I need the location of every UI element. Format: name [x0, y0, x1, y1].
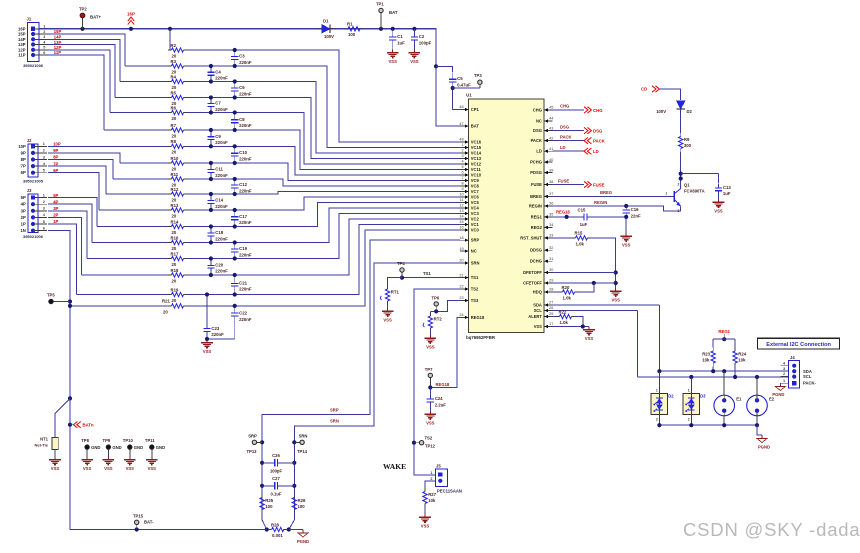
svg-text:1uF: 1uF: [397, 40, 405, 45]
svg-text:FUSE: FUSE: [558, 178, 569, 183]
svg-text:3: 3: [43, 35, 45, 39]
resistor R16: [168, 235, 187, 251]
svg-text:7P: 7P: [21, 164, 26, 169]
net flag FUSE: [584, 181, 605, 187]
svg-text:14P: 14P: [54, 35, 62, 40]
svg-text:J2: J2: [27, 138, 32, 143]
wire R9 to Q1 collector: [680, 152, 682, 189]
ground VSS pin 17: [583, 327, 595, 341]
wire D4 to bottom bus: [658, 414, 660, 425]
wire SCL to E2: [756, 377, 758, 395]
pin 8 VC8: [460, 182, 479, 189]
wire BAT to C5: [436, 66, 453, 72]
svg-text:C10: C10: [239, 150, 247, 155]
wire R11 row to IC pin: [187, 179, 460, 186]
svg-text:REG2: REG2: [531, 225, 543, 230]
svg-text:R10: R10: [171, 156, 179, 161]
svg-text:R4: R4: [171, 74, 177, 79]
test point TP5: [47, 293, 70, 304]
svg-text:15: 15: [459, 220, 463, 224]
pin 31 DCHG: [530, 257, 553, 264]
svg-text:20: 20: [172, 262, 177, 267]
pin 18 SRP: [459, 236, 479, 243]
test point TP15 BAT-: [133, 513, 154, 529]
svg-text:TP7: TP7: [425, 367, 433, 372]
wire J5 pin2 to R27: [425, 481, 436, 488]
net flag DSG: [584, 127, 603, 133]
svg-text:REG1: REG1: [718, 329, 730, 334]
svg-text:C1: C1: [397, 34, 403, 39]
svg-text:1: 1: [688, 389, 690, 393]
svg-text:47: 47: [459, 122, 463, 126]
svg-text:TP13: TP13: [247, 449, 258, 454]
wire ALERT to R22: [553, 316, 557, 318]
svg-text:PGND: PGND: [758, 445, 770, 450]
ground VSS C2: [409, 50, 421, 64]
svg-text:TS1: TS1: [423, 271, 431, 276]
svg-text:41: 41: [549, 147, 553, 151]
svg-text:TP8: TP8: [81, 438, 89, 443]
resistor R22: [556, 309, 575, 325]
junction: [581, 324, 585, 328]
svg-text:19: 19: [459, 247, 463, 251]
svg-text:GND: GND: [156, 445, 165, 450]
wire E2 to bottom bus: [756, 416, 758, 425]
svg-text:VC13: VC13: [471, 156, 482, 161]
svg-text:TP15: TP15: [133, 513, 144, 518]
pin 11 VC5: [460, 198, 480, 205]
svg-text:15P: 15P: [18, 32, 26, 37]
capacitor C9 220nF: [207, 130, 228, 146]
svg-text:220nF: 220nF: [215, 140, 228, 145]
svg-text:100pF: 100pF: [270, 468, 283, 473]
svg-text:24: 24: [459, 313, 463, 317]
svg-text:C8: C8: [239, 117, 245, 122]
svg-text:CD: CD: [641, 87, 647, 92]
svg-text:6P: 6P: [21, 170, 26, 175]
resistor R28: [268, 522, 287, 538]
svg-text:1.0k: 1.0k: [560, 320, 569, 325]
svg-text:TP12: TP12: [425, 444, 436, 449]
thermistor RT1: [380, 286, 399, 305]
svg-text:10k: 10k: [428, 498, 436, 503]
svg-text:NC: NC: [536, 119, 542, 124]
svg-text:12: 12: [459, 204, 463, 208]
junction: [689, 423, 693, 427]
wire CFETOFF: [553, 282, 616, 284]
wire R3 row to IC pin: [187, 66, 460, 148]
svg-text:R16: R16: [171, 235, 179, 240]
capacitor C16: [623, 206, 641, 218]
wire VSS pin to ground: [553, 326, 590, 328]
junction: [233, 128, 237, 132]
svg-text:R15: R15: [575, 231, 583, 236]
svg-text:220nF: 220nF: [239, 252, 252, 257]
wire C1 stem: [392, 29, 394, 32]
wire connector to row: [48, 173, 99, 210]
svg-text:0.1uF: 0.1uF: [271, 491, 282, 496]
resistor R25: [260, 494, 274, 513]
junction: [624, 204, 628, 208]
svg-text:PACK: PACK: [531, 138, 542, 143]
svg-text:6P: 6P: [53, 168, 58, 173]
svg-text:C15: C15: [578, 208, 586, 213]
svg-text:VSS: VSS: [104, 466, 113, 471]
junction: [265, 527, 269, 531]
wire C2 stem: [413, 29, 415, 32]
svg-text:PACK: PACK: [560, 134, 572, 139]
svg-text:R25: R25: [265, 498, 273, 503]
svg-text:R27: R27: [428, 492, 436, 497]
wire R22 down to VSS net: [575, 317, 583, 327]
svg-text:100: 100: [298, 504, 306, 509]
svg-text:220nF: 220nF: [215, 269, 228, 274]
svg-text:C26: C26: [272, 453, 280, 458]
svg-text:E1: E1: [736, 397, 742, 402]
svg-text:TS2: TS2: [425, 436, 433, 441]
capacitor C4 220nF: [207, 66, 228, 82]
junction: [233, 304, 237, 308]
svg-text:VC4: VC4: [471, 206, 480, 211]
svg-text:R26: R26: [298, 498, 306, 503]
svg-text:1.0k: 1.0k: [576, 241, 585, 246]
junction: [657, 369, 661, 373]
net flag CHG: [584, 107, 603, 113]
capacitor C27 0.1uF: [262, 476, 294, 496]
capacitor C20 220nF: [207, 259, 228, 276]
svg-text:J1: J1: [27, 17, 32, 22]
wire net row R2: [168, 49, 170, 51]
svg-text:1.0k: 1.0k: [563, 295, 572, 300]
svg-text:TP4: TP4: [397, 261, 405, 266]
svg-text:2: 2: [43, 30, 45, 34]
wire RT2 to ground: [429, 332, 431, 336]
junction: [391, 27, 395, 31]
wire R18 row to IC pin: [187, 219, 460, 275]
pin 34 REG2: [531, 223, 554, 230]
svg-text:CSDN @SKY -dada: CSDN @SKY -dada: [683, 519, 860, 540]
svg-text:14: 14: [459, 215, 463, 219]
net flag CD: [641, 86, 659, 92]
junction: [614, 281, 618, 285]
test point TP14 SRN: [294, 433, 307, 454]
svg-text:220nF: 220nF: [215, 204, 228, 209]
svg-text:U1: U1: [466, 93, 472, 98]
svg-text:External I2C Connection: External I2C Connection: [766, 342, 831, 348]
svg-text:C11: C11: [215, 167, 223, 172]
svg-text:16: 16: [459, 226, 463, 230]
wire NT1 to ground: [54, 450, 56, 457]
svg-text:PGND: PGND: [772, 392, 784, 397]
capacitor C3 220nF: [231, 50, 252, 66]
junction: [209, 256, 213, 260]
svg-text:2: 2: [43, 149, 45, 153]
pin 29 CFETOFF: [523, 279, 553, 286]
svg-text:36: 36: [549, 202, 553, 206]
svg-text:NT1: NT1: [40, 437, 49, 442]
capacitor C10 220nF: [231, 146, 252, 163]
svg-text:1uF: 1uF: [723, 191, 731, 196]
svg-text:R9: R9: [684, 137, 690, 142]
wire SDA bus: [659, 370, 788, 372]
wire net row R6: [110, 112, 168, 114]
pin 47 BAT: [459, 122, 479, 129]
svg-text:PCHG: PCHG: [530, 160, 542, 165]
capacitor C6 220nF: [231, 82, 252, 98]
svg-text:VSS: VSS: [426, 420, 435, 425]
svg-text:bq76952PFBR: bq76952PFBR: [466, 335, 496, 340]
wire CD to D2: [659, 89, 680, 100]
svg-text:PEC11SAAN: PEC11SAAN: [437, 489, 462, 494]
ground VSS RT1: [382, 308, 394, 322]
svg-text:220nF: 220nF: [239, 287, 252, 292]
svg-text:6: 6: [461, 171, 463, 175]
wire R13 row to IC pin: [187, 197, 460, 210]
junction: [68, 423, 72, 427]
svg-text:VSS: VSS: [83, 466, 92, 471]
capacitor C2: [411, 32, 432, 45]
pin 25 ALERT: [528, 312, 553, 319]
wire R6 row to IC pin: [187, 113, 460, 165]
svg-text:2P: 2P: [53, 213, 58, 218]
svg-text:SDA: SDA: [533, 303, 542, 308]
wire C13 to ground: [718, 196, 720, 200]
wire connector to row: [48, 224, 77, 295]
capacitor C17 220nF: [231, 210, 252, 227]
svg-text:VC11: VC11: [471, 167, 482, 172]
wire R10 row to IC pin: [187, 163, 460, 181]
svg-text:5P: 5P: [53, 193, 58, 198]
junction: [209, 128, 213, 132]
svg-text:2: 2: [783, 372, 785, 376]
svg-text:20: 20: [163, 309, 168, 314]
junction: [292, 461, 296, 465]
wire net row R19: [76, 294, 168, 296]
capacitor C24: [427, 395, 447, 407]
svg-text:TP5: TP5: [47, 293, 55, 298]
test point TP8 GND: [81, 438, 100, 456]
svg-text:BAT-: BAT-: [144, 520, 154, 525]
svg-text:VSS: VSS: [410, 59, 419, 64]
net-tie NT1: [35, 437, 59, 450]
wire R20 up to CFETOFF: [578, 283, 594, 292]
svg-text:REG1: REG1: [531, 214, 543, 219]
wire net row R5: [115, 97, 168, 99]
svg-text:LD: LD: [536, 149, 542, 154]
svg-text:REG18: REG18: [436, 382, 450, 387]
pin 38 FUSE: [531, 180, 553, 187]
junction: [689, 375, 693, 379]
svg-text:220nF: 220nF: [239, 60, 252, 65]
junction: [209, 95, 213, 99]
svg-text:3: 3: [461, 154, 463, 158]
wire LED/E bottom bus: [659, 424, 757, 426]
wire connector to row: [48, 39, 120, 81]
svg-text:CHG: CHG: [593, 108, 603, 113]
svg-text:20: 20: [172, 213, 177, 218]
svg-text:GND: GND: [112, 445, 121, 450]
svg-text:20: 20: [172, 278, 177, 283]
svg-text:8: 8: [461, 182, 463, 186]
wire SDA to D4: [658, 371, 660, 393]
svg-text:220nF: 220nF: [215, 173, 228, 178]
svg-text:PDSG: PDSG: [530, 170, 542, 175]
resistor R27: [423, 488, 437, 507]
pin 3 VC13: [460, 154, 482, 161]
svg-text:395021006: 395021006: [23, 63, 44, 68]
connector J4: [780, 355, 816, 388]
svg-text:1: 1: [43, 193, 45, 197]
svg-text:VC15: VC15: [471, 145, 482, 150]
svg-text:BREG: BREG: [600, 190, 612, 195]
wire R5 row to IC pin: [187, 98, 460, 159]
svg-text:DSG: DSG: [533, 128, 542, 133]
svg-text:1: 1: [783, 379, 785, 383]
resistor R6: [168, 105, 187, 121]
junction: [209, 144, 213, 148]
svg-text:32: 32: [549, 246, 553, 250]
svg-text:LD: LD: [560, 145, 566, 150]
wire net DSG: [553, 130, 585, 132]
svg-text:NC: NC: [471, 249, 477, 254]
svg-text:2: 2: [461, 149, 463, 153]
svg-text:1: 1: [430, 471, 432, 475]
pin 12 VC4: [459, 204, 479, 211]
svg-text:3: 3: [43, 155, 45, 159]
svg-text:20: 20: [172, 133, 177, 138]
test point TP2 BAT+: [79, 7, 102, 29]
test point TP11 GND: [145, 438, 165, 456]
svg-text:E2: E2: [769, 397, 775, 402]
wire connector to row: [48, 50, 110, 113]
wire to TP3: [453, 87, 480, 89]
svg-text:C27: C27: [272, 476, 280, 481]
wire connector to row: [48, 55, 104, 130]
svg-text:3P: 3P: [53, 206, 58, 211]
svg-text:C18: C18: [215, 230, 223, 235]
wire net REGIN: [553, 206, 681, 211]
svg-text:39: 39: [549, 168, 553, 172]
junction: [68, 299, 72, 303]
svg-text:100V: 100V: [656, 109, 666, 114]
svg-text:TP3: TP3: [474, 73, 482, 78]
ground PGND LEDs: [757, 435, 770, 450]
connector J1 395021006: [18, 17, 61, 68]
svg-text:VC8: VC8: [471, 184, 480, 189]
svg-text:33: 33: [549, 234, 553, 238]
svg-text:8P: 8P: [21, 157, 26, 162]
junction: [205, 337, 209, 341]
ground VSS RT2: [425, 335, 437, 349]
wire R24 to SCL bus: [734, 367, 736, 378]
svg-text:BAT: BAT: [389, 10, 398, 15]
test point TP3: [474, 73, 482, 88]
svg-text:7: 7: [461, 176, 463, 180]
LED pack D3: [683, 389, 706, 422]
svg-text:VC1: VC1: [471, 222, 480, 227]
svg-text:29: 29: [549, 279, 553, 283]
resistor R9: [679, 133, 692, 152]
junction: [209, 110, 213, 114]
svg-text:DSG: DSG: [560, 124, 569, 129]
resistor R11: [168, 172, 187, 188]
svg-text:10P: 10P: [18, 144, 26, 149]
svg-text:BAT+: BAT+: [90, 15, 102, 20]
wire net SRN: [289, 263, 460, 530]
svg-text:BREG: BREG: [530, 194, 542, 199]
svg-text:100: 100: [348, 32, 356, 37]
svg-text:R1: R1: [347, 22, 353, 27]
op-amp U1 bq76952PFBR IC body: [466, 93, 544, 340]
junction: [168, 27, 172, 31]
wire R16 row to IC pin: [187, 208, 460, 243]
junction: [68, 304, 72, 308]
junction: [260, 484, 264, 488]
wire C2 to ground: [413, 45, 415, 50]
junction: [209, 208, 213, 212]
wire connector to row: [48, 217, 82, 275]
pin 14 VC2: [459, 215, 479, 222]
svg-text:VC9: VC9: [471, 178, 480, 183]
pin 15 VC1: [459, 220, 479, 227]
svg-text:SRN: SRN: [299, 433, 308, 438]
capacitor C18 220nF: [207, 227, 228, 243]
svg-text:TP10: TP10: [123, 438, 134, 443]
ground VSS below C23: [201, 340, 213, 354]
wire net row R8: [48, 145, 168, 147]
svg-text:VC10: VC10: [471, 173, 482, 178]
wire net row R11: [113, 178, 168, 180]
svg-text:R11: R11: [171, 172, 179, 177]
wire bottom bus to PGND: [757, 425, 762, 435]
svg-text:D3: D3: [700, 394, 706, 399]
ground PGND J4: [772, 387, 785, 397]
svg-text:395021006: 395021006: [23, 234, 44, 239]
svg-text:3P: 3P: [21, 208, 26, 213]
svg-text:18: 18: [459, 236, 463, 240]
label box External I2C Connection: [758, 338, 840, 349]
svg-text:ALERT: ALERT: [528, 314, 542, 319]
transistor Q1 FCX690TA: [665, 183, 704, 214]
svg-text:R18: R18: [171, 268, 179, 273]
wire TP7 node to C24: [429, 388, 431, 396]
svg-text:1: 1: [43, 142, 45, 146]
wire net row R3: [125, 65, 168, 67]
svg-text:VSS: VSS: [714, 208, 723, 213]
pin 5 VC11: [460, 165, 481, 172]
LED pack D2: [651, 389, 674, 422]
junction: [711, 369, 715, 373]
svg-text:C7: C7: [215, 101, 221, 106]
svg-text:15P: 15P: [54, 29, 62, 34]
svg-text:J4: J4: [790, 355, 795, 360]
svg-text:C22: C22: [239, 311, 247, 316]
ground VSS C13: [713, 199, 725, 213]
svg-text:26: 26: [549, 306, 553, 310]
junction: [292, 484, 296, 488]
svg-text:220nF: 220nF: [239, 317, 252, 322]
svg-text:2: 2: [43, 200, 45, 204]
svg-text:43: 43: [549, 126, 553, 130]
junction: [755, 423, 759, 427]
svg-text:VSS: VSS: [534, 324, 542, 329]
svg-text:1uF: 1uF: [580, 222, 588, 227]
svg-text:9: 9: [461, 187, 463, 191]
wire R7 row to IC pin: [187, 130, 460, 170]
svg-text:R22: R22: [559, 309, 567, 314]
svg-text:VSS: VSS: [203, 349, 212, 354]
pin 33 RST_SHUT: [520, 234, 553, 241]
